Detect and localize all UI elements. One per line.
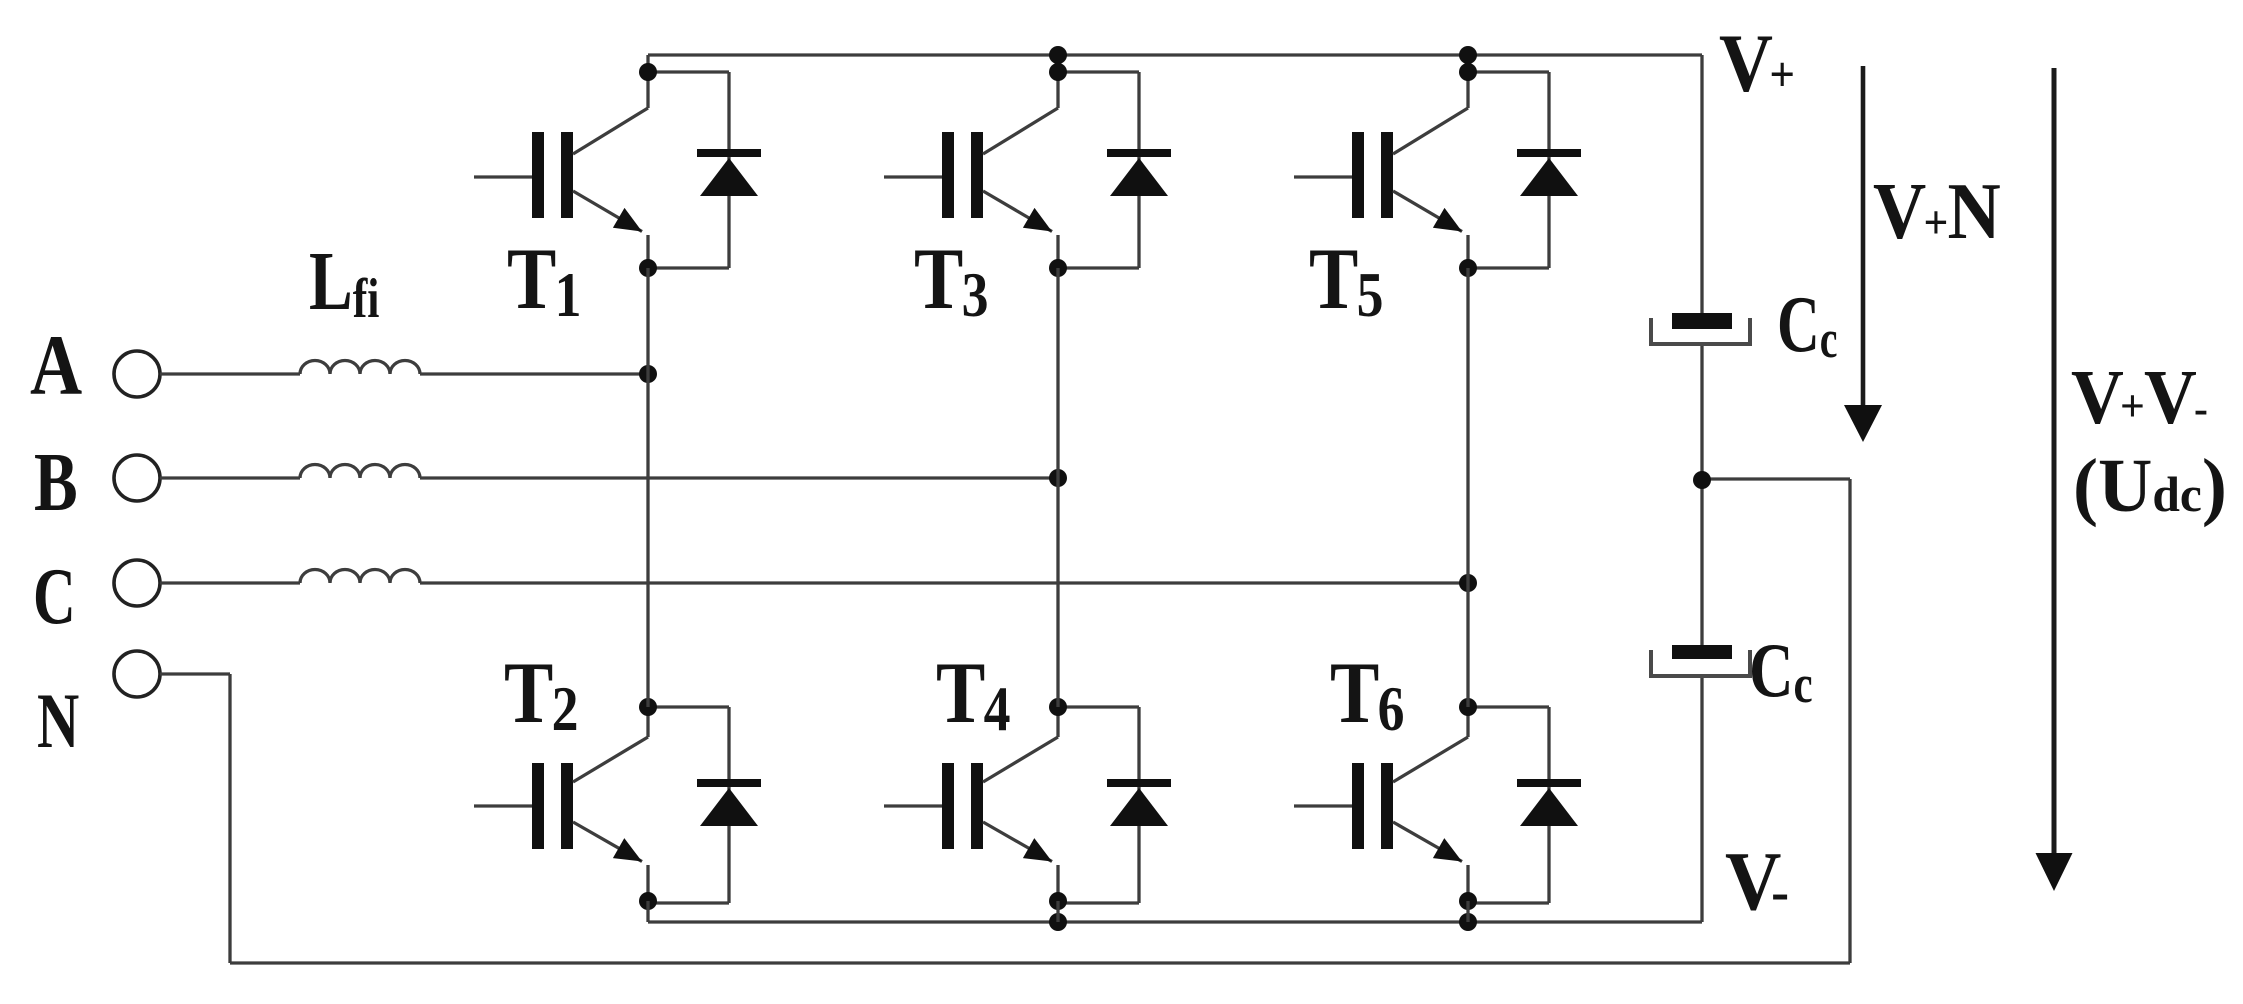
node T4 rail junction: [1049, 913, 1067, 931]
node T5 collector: [1459, 63, 1477, 81]
wire leg 1 phase vertical: [646, 268, 649, 707]
node T5 emitter: [1459, 259, 1477, 277]
node T1 collector: [639, 63, 657, 81]
IGBT T5: [1294, 108, 1468, 232]
wire T1 emitter stub: [646, 235, 649, 268]
arrow V+N: [1861, 66, 1866, 414]
svg-text:B: B: [34, 436, 78, 529]
node phase B junction: [1049, 469, 1067, 487]
node T4 collector: [1049, 698, 1067, 716]
wire phase A to leg 1: [420, 372, 648, 375]
node T5 rail junction: [1459, 46, 1477, 64]
wire T4 emitter stub: [1056, 865, 1059, 903]
wire T2 emitter stub: [646, 865, 649, 903]
svg-text:C: C: [33, 553, 76, 642]
wire T6 collector stub: [1466, 707, 1469, 737]
wire T4 collector to D4 cathode: [1058, 705, 1139, 708]
wire terminal C to inductor: [160, 581, 300, 584]
IGBT T4: [884, 737, 1058, 862]
wire midpoint horizontal: [1702, 477, 1850, 480]
terminal N: [114, 651, 160, 697]
node DC midpoint: [1693, 471, 1711, 489]
node T1 emitter: [639, 259, 657, 277]
diode D1 (antiparallel with T1): [697, 72, 761, 268]
wire V- rail: [648, 920, 1702, 923]
IGBT T3: [884, 108, 1058, 232]
wire N vertical drop: [228, 674, 231, 963]
node phase A junction: [639, 365, 657, 383]
wire between capacitors: [1700, 344, 1703, 646]
node phase C junction: [1459, 574, 1477, 592]
wire leg 1 to V- rail: [646, 901, 649, 922]
svg-text:A: A: [30, 318, 82, 413]
wire T3 collector stub: [1056, 55, 1059, 108]
wire T3 emitter to D3 anode: [1058, 266, 1139, 269]
inductor Lfi phase B: [300, 464, 420, 478]
wire T5 collector stub: [1466, 55, 1469, 108]
wire phase B to leg 2: [420, 476, 1058, 479]
terminal C: [114, 560, 160, 606]
wire T2 collector stub: [646, 707, 649, 737]
wire T1 collector to D1 cathode: [648, 70, 729, 73]
diode D6 (antiparallel with T6): [1517, 707, 1581, 903]
wire N bottom return: [230, 961, 1850, 964]
IGBT T1: [474, 108, 648, 232]
IGBT T2: [474, 737, 648, 862]
node T2 emitter: [639, 892, 657, 910]
diode D4 (antiparallel with T4): [1107, 707, 1171, 903]
wire DC- drop to V- rail: [1700, 676, 1703, 922]
wire T6 collector to D6 cathode: [1468, 705, 1549, 708]
wire terminal N to corner: [160, 672, 230, 675]
wire DC+ drop to capacitor: [1700, 55, 1703, 314]
wire leg 3 phase vertical: [1466, 268, 1469, 707]
wire T4 emitter to D4 anode: [1058, 901, 1139, 904]
node T3 rail junction: [1049, 46, 1067, 64]
diode D3 (antiparallel with T3): [1107, 72, 1171, 268]
svg-text:N: N: [37, 678, 79, 764]
node T4 emitter: [1049, 892, 1067, 910]
wire T5 emitter stub: [1466, 235, 1469, 268]
wire T2 collector to D2 cathode: [648, 705, 729, 708]
wire T1 collector stub: [646, 55, 649, 108]
diode D5 (antiparallel with T5): [1517, 72, 1581, 268]
arrow V+V- (Udc): [2052, 68, 2057, 858]
terminal A: [114, 351, 160, 397]
wire T6 emitter to D6 anode: [1468, 901, 1549, 904]
node T6 rail junction: [1459, 913, 1477, 931]
wire V+ top rail: [648, 53, 1702, 56]
wire T4 collector stub: [1056, 707, 1059, 737]
wire leg 2 phase vertical: [1056, 268, 1059, 707]
wire terminal A to inductor: [160, 372, 300, 375]
svg-text:V-: V-: [1725, 834, 1789, 927]
inductor Lfi phase C: [300, 570, 420, 584]
wire T1 emitter to D1 anode: [648, 266, 729, 269]
node T3 emitter: [1049, 259, 1067, 277]
wire leg 2 to V- rail: [1056, 901, 1059, 922]
node T3 collector: [1049, 63, 1067, 81]
node T6 emitter: [1459, 892, 1477, 910]
wire terminal B to inductor: [160, 476, 300, 479]
terminal B: [114, 455, 160, 501]
wire phase C to leg 3: [420, 581, 1468, 584]
capacitor Cc lower: [1651, 645, 1750, 676]
wire T3 collector to D3 cathode: [1058, 70, 1139, 73]
wire T2 emitter to D2 anode: [648, 901, 729, 904]
wire T5 emitter to D5 anode: [1468, 266, 1549, 269]
node T2 collector: [639, 698, 657, 716]
inductor Lfi phase A: [300, 361, 420, 375]
IGBT T6: [1294, 737, 1468, 862]
wire right riser to midpoint: [1848, 479, 1851, 963]
diode D2 (antiparallel with T2): [697, 707, 761, 903]
capacitor Cc upper: [1651, 313, 1750, 344]
svg-text:(Udc): (Udc): [2073, 445, 2227, 528]
wire T3 emitter stub: [1056, 235, 1059, 268]
wire T6 emitter stub: [1466, 865, 1469, 903]
wire T5 collector to D5 cathode: [1468, 70, 1549, 73]
node T6 collector: [1459, 698, 1477, 716]
wire leg 3 to V- rail: [1466, 901, 1469, 922]
